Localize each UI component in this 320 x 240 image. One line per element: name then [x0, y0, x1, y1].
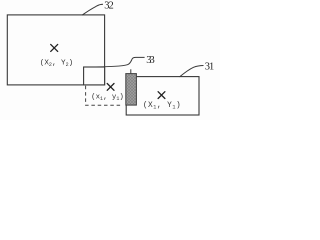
- moved window strip (33): [126, 74, 137, 106]
- svg-text:31: 31: [205, 61, 215, 72]
- cross (x1,y1): [107, 84, 114, 91]
- leader line to label 32: [82, 4, 103, 15]
- cross (X1,Y1): [158, 92, 165, 99]
- display rectangle 31: [126, 77, 199, 115]
- small window rectangle: [84, 67, 105, 85]
- svg-text:(X2, Y2): (X2, Y2): [40, 59, 73, 67]
- svg-text:33: 33: [146, 55, 155, 66]
- display rectangle 32: [7, 15, 104, 85]
- leader line to label 31: [180, 66, 204, 77]
- svg-text:(x1, y1): (x1, y1): [91, 94, 124, 102]
- leader line to label 33: [88, 57, 145, 67]
- cross (X2,Y2): [51, 44, 58, 51]
- dashed motion path: [86, 86, 123, 105]
- leader tick down to strip: [130, 69, 132, 74]
- svg-text:32: 32: [104, 1, 114, 12]
- svg-text:(X1, Y1): (X1, Y1): [143, 102, 181, 110]
